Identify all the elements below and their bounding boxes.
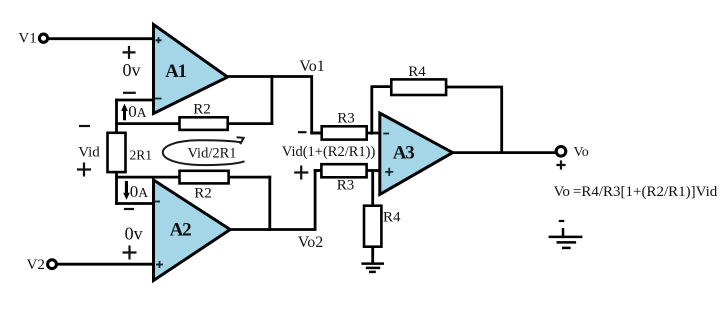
svg-text:V1: V1 [18,31,36,47]
svg-text:R3: R3 [337,178,355,194]
svg-text:0v: 0v [123,60,141,80]
svg-text:Vid(1+(R2/R1)): Vid(1+(R2/R1)) [282,144,376,160]
svg-text:R4: R4 [383,210,401,226]
svg-text:A1: A1 [165,61,187,82]
svg-text:R4: R4 [408,64,426,80]
svg-text:0v: 0v [125,223,143,243]
svg-text:R2: R2 [194,186,212,202]
svg-text:0A: 0A [128,102,147,121]
svg-text:2R1: 2R1 [130,148,153,163]
svg-text:A3: A3 [393,142,415,163]
svg-text:R3: R3 [337,111,355,127]
svg-text:Vo =R4/R3[1+(R2/R1)]Vid: Vo =R4/R3[1+(R2/R1)]Vid [554,184,718,200]
svg-text:V2: V2 [27,257,45,273]
svg-text:A2: A2 [170,220,192,241]
svg-text:Vo2: Vo2 [298,234,324,251]
svg-text:Vid/2R1: Vid/2R1 [187,146,236,162]
svg-text:Vid: Vid [78,145,100,161]
svg-text:R2: R2 [193,102,211,118]
svg-text:Vo1: Vo1 [299,58,325,75]
svg-text:0A: 0A [130,182,149,201]
svg-text:Vo: Vo [574,145,589,160]
